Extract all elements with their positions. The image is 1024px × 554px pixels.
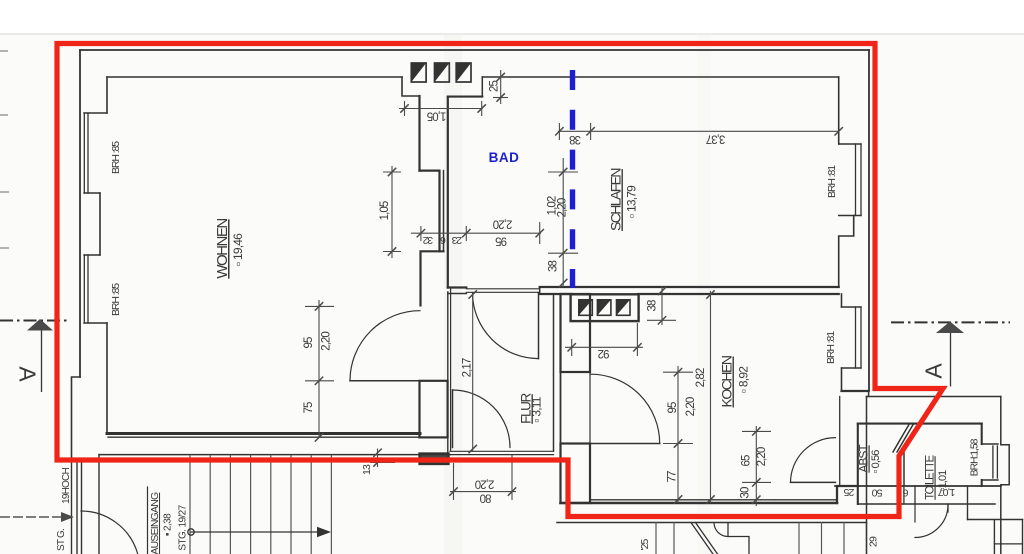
svg-text:32: 32	[423, 234, 434, 246]
kochen east door leaf	[791, 481, 836, 483]
dim kochen 2,82	[710, 291, 712, 503]
flur bottom sill lines	[450, 450, 554, 452]
svg-text:2,20: 2,20	[756, 447, 768, 466]
svg-text:A: A	[15, 366, 41, 382]
kochen east wall sill	[839, 397, 841, 487]
margin ticks	[0, 51, 9, 248]
bad door arc	[473, 293, 539, 359]
bad west wall face	[447, 97, 449, 288]
bad/schlafen bottom wall band	[540, 286, 839, 288]
left wall inner face segments	[106, 77, 108, 113]
bottom wall band of abst/toilette	[835, 485, 1001, 487]
stairwell west wall	[71, 459, 73, 554]
svg-text:2,20: 2,20	[557, 198, 569, 217]
wohnen door lower block	[420, 381, 448, 438]
hauseingang door arc	[81, 511, 138, 554]
toilette window reveals	[982, 443, 998, 445]
bad chimney squares	[411, 63, 471, 82]
svg-text:WOHNEN: WOHNEN	[214, 219, 231, 279]
bad door sill lines	[466, 288, 539, 290]
svg-text:2,82: 2,82	[695, 368, 707, 387]
kochen door arc	[590, 374, 660, 443]
window reveals left wall	[84, 112, 107, 114]
hauseingang underline rule	[147, 487, 149, 554]
stair hall top edge	[99, 454, 450, 456]
wohnen bottom wall	[107, 432, 420, 435]
svg-text:▫1,01: ▫1,01	[937, 470, 949, 492]
bad top wall	[448, 96, 483, 98]
lower right walls	[968, 519, 1023, 521]
kochen door sill	[589, 372, 591, 444]
schlafen top inner wall	[482, 76, 838, 78]
svg-text:13: 13	[361, 464, 373, 475]
svg-text:1,05: 1,05	[427, 110, 446, 122]
svg-text:80: 80	[480, 492, 491, 504]
vestibule west wall	[866, 397, 868, 554]
window glass west 1	[83, 113, 85, 193]
svg-text:25: 25	[843, 486, 854, 498]
abst west wall	[857, 424, 859, 504]
svg-text:▫ 13,79: ▫ 13,79	[625, 185, 639, 218]
schlafen east window	[838, 77, 840, 144]
kochen door leaf	[590, 443, 660, 445]
dim kochen door 95/2,20	[677, 366, 679, 503]
wohnen door arc	[350, 311, 420, 381]
wohnen top inner wall	[107, 76, 402, 78]
svg-text:38: 38	[548, 261, 560, 272]
svg-text:BRH :81: BRH :81	[826, 165, 838, 198]
chimney niche	[420, 171, 440, 252]
dim kochen east 65/2,20/30	[755, 426, 757, 506]
vestibule top wall	[867, 396, 1001, 398]
svg-text:▫ 0,56: ▫ 0,56	[870, 450, 882, 474]
svg-text:30: 30	[740, 487, 752, 498]
outer wall left upper	[79, 50, 81, 377]
svg-text:A: A	[921, 363, 947, 379]
stair walking line	[191, 531, 319, 533]
svg-text:HAUSEINGANG: HAUSEINGANG	[149, 492, 161, 554]
svg-text:BRH :85: BRH :85	[110, 283, 122, 316]
dim wohnen door 95/2,20/75	[318, 300, 320, 437]
wohnen door leaf	[350, 380, 420, 382]
blue planned partition dashed line	[570, 70, 575, 288]
kochen east window	[841, 294, 843, 307]
svg-text:ST G.: ST G.	[56, 529, 67, 551]
svg-text:▫ 19,46: ▫ 19,46	[231, 233, 245, 266]
stairwell direction arrow dash line	[0, 516, 62, 518]
flur entry door leaf	[452, 390, 454, 448]
svg-text:2,20: 2,20	[475, 478, 494, 490]
outer wall ne of vestibule	[1001, 397, 1009, 554]
dim kochen 38	[661, 286, 663, 325]
toilette east wall	[981, 424, 983, 444]
faint scanner line	[0, 33, 1024, 35]
svg-text:23: 23	[452, 234, 463, 246]
abst top wall	[858, 423, 914, 425]
wohnen east wall face upper	[418, 96, 420, 171]
svg-text:92: 92	[598, 347, 609, 359]
svg-text:38: 38	[570, 133, 581, 145]
svg-text:SCHLAFEN: SCHLAFEN	[608, 169, 624, 231]
section line A-A west	[0, 320, 68, 322]
svg-text:95: 95	[496, 234, 507, 246]
red apartment boundary	[57, 44, 943, 517]
svg-text:KOCHEN: KOCHEN	[719, 356, 735, 407]
svg-text:2,17: 2,17	[462, 358, 474, 377]
vestibule small door arc	[714, 523, 728, 537]
window glass west 2	[83, 255, 85, 323]
corridor lower edge	[557, 522, 867, 524]
svg-text:3,37: 3,37	[706, 133, 725, 145]
section line A-A east	[891, 321, 1010, 323]
outer wall right	[868, 50, 870, 391]
dim bad bottom 23 6 32 95	[411, 232, 541, 234]
toilette door arc	[915, 505, 948, 538]
bad bottom wall west part	[448, 286, 467, 288]
vestibule step diagonals	[691, 523, 713, 554]
wohnen ne corner step	[402, 77, 420, 96]
svg-text:25: 25	[489, 81, 501, 92]
dim schlafen left 1,02 / 38	[562, 158, 564, 287]
svg-text:BAD: BAD	[489, 150, 520, 165]
dim 1,05 niche	[391, 166, 393, 258]
stair treads	[190, 456, 331, 554]
svg-text:▫ 8,92: ▫ 8,92	[737, 366, 751, 393]
svg-text:▪ 2,38: ▪ 2,38	[163, 513, 174, 536]
svg-text:2,20: 2,20	[685, 397, 697, 416]
outer wall left lower jog	[72, 377, 81, 459]
dim 13	[377, 449, 379, 468]
cellar stair treads	[656, 523, 867, 554]
dim 1,05 bad top	[399, 108, 482, 110]
flur entry door arc	[453, 390, 511, 448]
svg-text:▫ 3,11: ▫ 3,11	[530, 396, 544, 422]
svg-text:BRH:1,58: BRH:1,58	[969, 438, 981, 476]
flur sw niche block	[420, 454, 449, 465]
east wall pier jog	[839, 216, 854, 288]
svg-text:95: 95	[303, 337, 315, 348]
abst chamfer double wall	[897, 424, 914, 452]
kochen west wall lower	[561, 444, 591, 504]
svg-text:38: 38	[647, 300, 659, 311]
bad door leaf	[538, 293, 540, 359]
dim schlafen top 38 / 3,37	[558, 130, 839, 132]
flur east wall	[553, 294, 555, 451]
dim flur 2,17	[472, 293, 474, 451]
kochen chimney box	[571, 294, 639, 321]
band ticks	[857, 486, 859, 504]
kochen east door arc	[791, 438, 836, 483]
dim flur entry 80/2,20	[450, 491, 516, 493]
faint scan streak	[444, 35, 462, 554]
svg-text:BRH :81: BRH :81	[825, 331, 837, 364]
svg-text:2,20: 2,20	[493, 218, 512, 230]
toilette top wall	[914, 423, 982, 425]
svg-text:65: 65	[741, 455, 753, 466]
dim 25 wall	[500, 70, 502, 104]
outer wall top	[80, 49, 869, 51]
svg-text:95: 95	[667, 402, 679, 413]
svg-text:STG. 19/27: STG. 19/27	[178, 504, 189, 550]
dim kochen 92	[565, 346, 643, 348]
svg-text:77: 77	[667, 471, 679, 482]
svg-text:'25: '25	[639, 538, 651, 550]
svg-text:50: 50	[872, 487, 883, 499]
svg-text:ABST: ABST	[857, 444, 871, 473]
toilette door jamb lines	[914, 504, 916, 522]
kochen bottom wall	[561, 502, 838, 505]
svg-text:1,05: 1,05	[379, 201, 391, 220]
svg-text:19HOCH: 19HOCH	[61, 468, 72, 504]
svg-text:BRH :85: BRH :85	[110, 141, 122, 174]
svg-text:TOILETTE: TOILETTE	[925, 455, 937, 500]
kochen southeast corner	[842, 390, 869, 392]
svg-text:2,20: 2,20	[321, 332, 333, 351]
kochen west pillar	[561, 294, 591, 372]
svg-text:75: 75	[303, 402, 315, 413]
svg-text:29: 29	[868, 536, 880, 547]
flur west plaster line	[450, 289, 452, 451]
toilette west wall lower	[903, 452, 905, 486]
